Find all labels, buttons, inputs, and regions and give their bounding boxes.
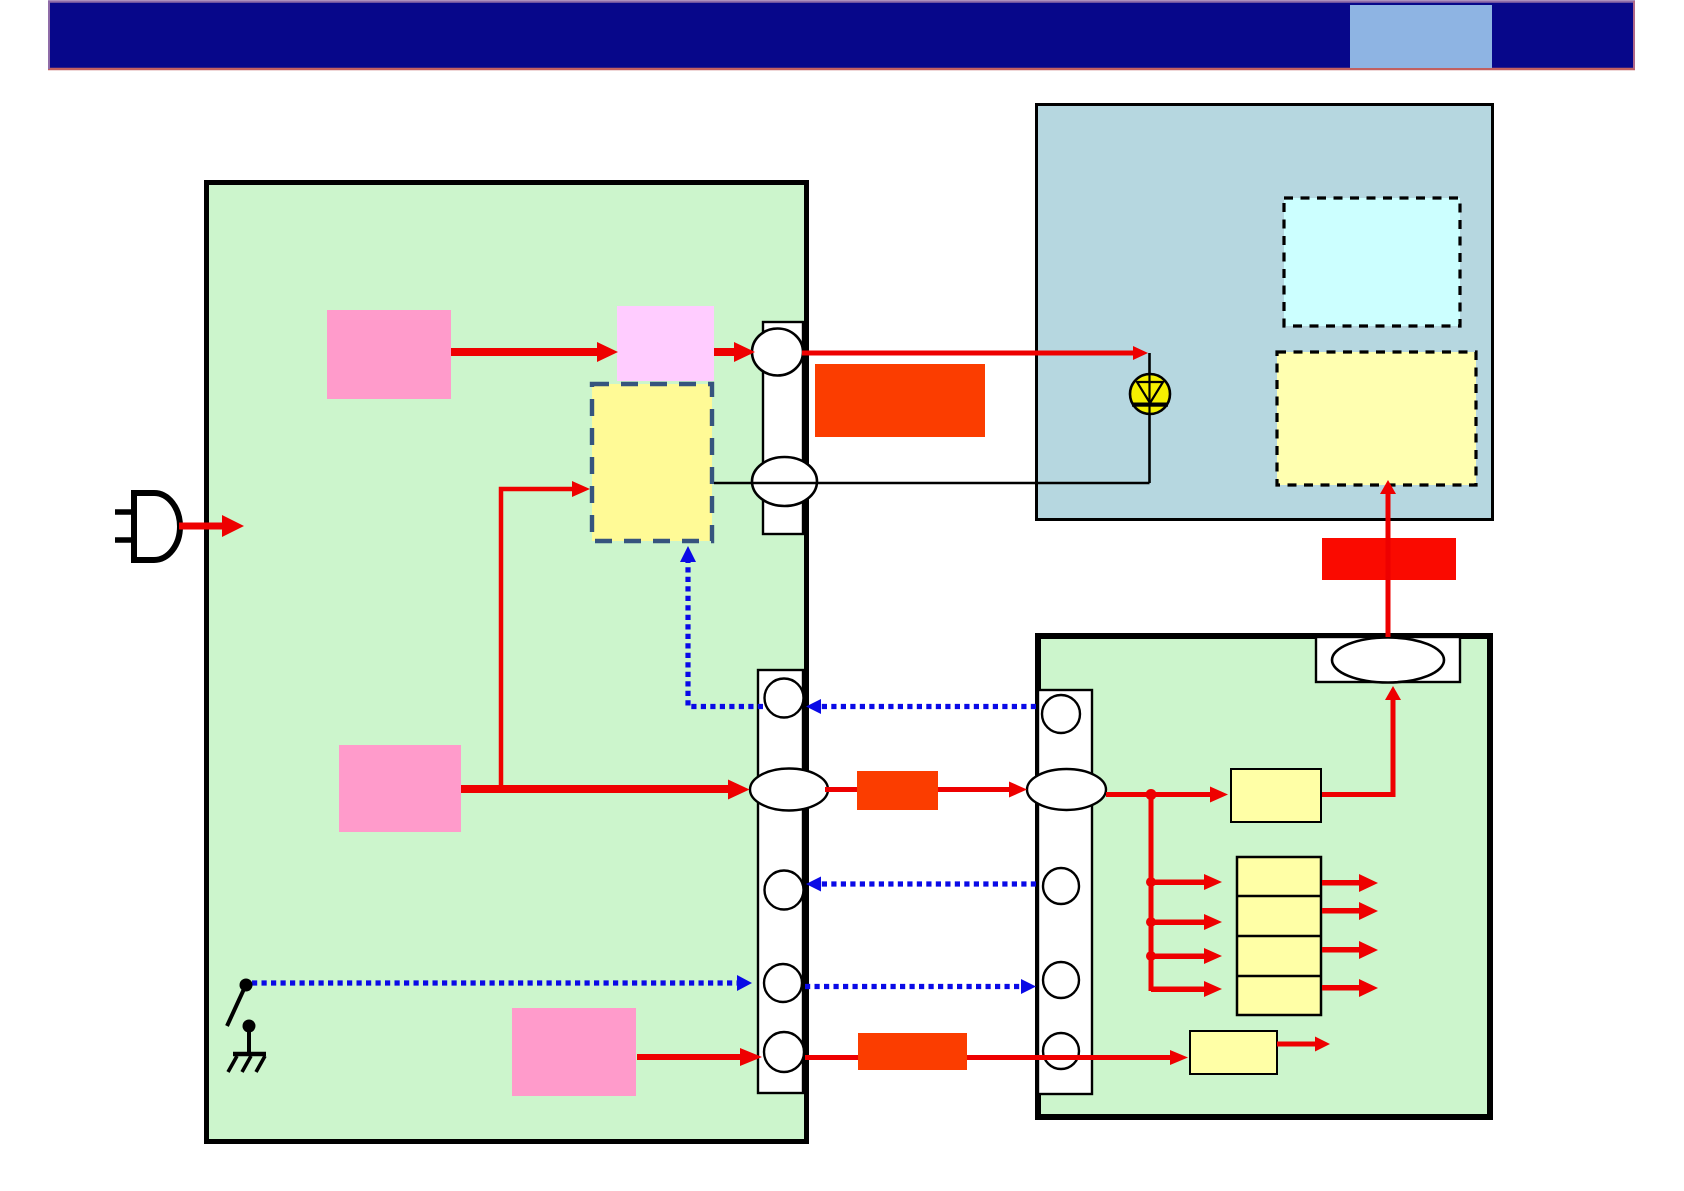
block P4 (pink) <box>512 1008 636 1096</box>
cyan dashed block in monitor <box>1284 198 1460 326</box>
pin circle L3 <box>765 871 804 910</box>
arrow: plug to power board <box>179 515 244 537</box>
logic board block (bottom right green) <box>1038 636 1490 1117</box>
yellow block A <box>1231 769 1321 822</box>
wire red: connector to monitor LED <box>802 346 1148 360</box>
label rect red-orange A (mains) <box>815 364 985 437</box>
arrow: R2 to yellow block A, with junction <box>1106 787 1228 803</box>
branch arrow 3 to stack <box>1151 948 1222 964</box>
pin circle R3 <box>1043 868 1079 904</box>
connector block upper (white bar) <box>763 322 803 534</box>
pin circle R1 <box>1042 695 1080 733</box>
blue dotted: R3 to L3 <box>821 881 1036 886</box>
yellow block stack <box>1237 857 1321 1015</box>
branch arrow 1 to stack <box>1151 874 1222 890</box>
blue dotted: switch to L4 <box>252 980 737 985</box>
monitor block (top right blue) <box>1037 105 1493 520</box>
red distribution bus vertical <box>1146 794 1156 991</box>
pin circle L1 <box>765 679 804 718</box>
blue dotted: L4 to R4 <box>805 984 1021 989</box>
block P1 (pink) <box>327 310 451 399</box>
connector block lower-left (white bar) <box>758 670 803 1093</box>
arrow: P4 to connector L5 <box>637 1048 762 1066</box>
connector block lower-right (white bar) <box>1038 690 1092 1094</box>
AC plug symbol <box>115 493 180 560</box>
connector pin circle <box>752 329 803 376</box>
title bar accent block <box>1350 5 1492 68</box>
stack output arrow 3 <box>1322 941 1378 959</box>
black wire: standby supply to monitor <box>714 482 1150 485</box>
power switch symbol <box>227 979 266 1073</box>
inverter connector (white box with ellipse) <box>1316 637 1460 682</box>
stack output arrow 2 <box>1322 902 1378 920</box>
stack output arrow 1 <box>1322 874 1378 892</box>
label rect red D <box>1322 538 1456 580</box>
blue dotted: R1 to L1 to standby supply <box>688 561 1036 707</box>
arrow: yellow B output <box>1277 1037 1330 1052</box>
block P2 (lavender) <box>617 306 714 381</box>
LED indicator <box>1130 374 1170 414</box>
pin circle L5 <box>764 1032 804 1072</box>
wire red: L5 to yellow block B <box>805 1050 1188 1065</box>
pin ellipse L2 <box>750 769 828 811</box>
label rect red-orange C <box>858 1033 967 1070</box>
arrow: yellow A to inverter connector <box>1322 686 1401 795</box>
pin circle R4 <box>1043 962 1079 998</box>
arrow: inverter connector to monitor yellow block <box>1380 480 1396 637</box>
pin circle L4 <box>764 964 802 1002</box>
stack output arrow 4 <box>1322 979 1378 997</box>
label rect red-orange B <box>857 771 938 810</box>
standby supply block (yellow dashed) <box>592 384 712 541</box>
yellow block B <box>1190 1031 1277 1074</box>
power board block (left green) <box>207 183 807 1142</box>
arrow: P3 to connector ellipse <box>461 780 750 800</box>
pin circle R5 <box>1043 1033 1079 1069</box>
black wire: LED vertical <box>1148 353 1151 483</box>
branch arrow 2 to stack <box>1151 914 1222 930</box>
yellow dashed block in monitor <box>1277 352 1476 485</box>
inverter connector ellipse <box>1332 638 1444 683</box>
pin ellipse R2 <box>1027 769 1106 810</box>
wire red elbow: to standby supply <box>501 481 590 789</box>
connector pin ellipse <box>752 457 817 506</box>
arrow: P2 to connector pin <box>714 342 755 362</box>
arrow: P1 to P2 <box>451 342 618 362</box>
block P3 (pink) <box>339 745 461 832</box>
arrow: connector L2 to R2 <box>825 782 1027 798</box>
branch arrow 4 to stack <box>1151 981 1222 997</box>
title bar <box>48 1 1635 69</box>
